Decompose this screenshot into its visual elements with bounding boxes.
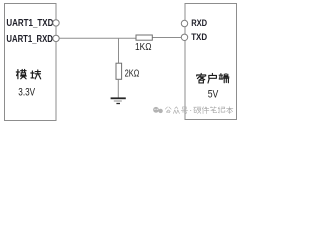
pin RXD circle [181, 20, 187, 26]
svg-text:TXD: TXD [191, 32, 207, 42]
label 客户端 [197, 74, 229, 84]
svg-text:2KΩ: 2KΩ [125, 68, 140, 79]
watermark text 公众号·硬件笔记本 [165, 107, 233, 114]
wire junction to 2KΩ [118, 38, 120, 63]
resistor 1KΩ [136, 35, 152, 40]
pin TXD circle [181, 34, 187, 40]
wire 2KΩ to ground [117, 79, 119, 97]
svg-text:3.3V: 3.3V [18, 86, 35, 98]
svg-text:1KΩ: 1KΩ [135, 42, 152, 53]
wire R1 to TXD [152, 37, 181, 39]
module box 模块 3.3V [5, 4, 57, 121]
svg-text:RXD: RXD [191, 18, 207, 28]
watermark logo [153, 107, 163, 113]
svg-text:UART1_TXD: UART1_TXD [6, 18, 53, 29]
label 模块 [16, 70, 40, 79]
svg-text:5V: 5V [208, 89, 219, 101]
pin UART1_TXD circle [53, 20, 59, 26]
wire UART1_RXD to R1 [59, 37, 136, 39]
resistor 2KΩ [116, 63, 122, 79]
ground [111, 98, 126, 103]
client box 客户端 5V [185, 4, 237, 120]
pin UART1_RXD circle [53, 35, 59, 41]
svg-text:UART1_RXD: UART1_RXD [6, 34, 53, 45]
